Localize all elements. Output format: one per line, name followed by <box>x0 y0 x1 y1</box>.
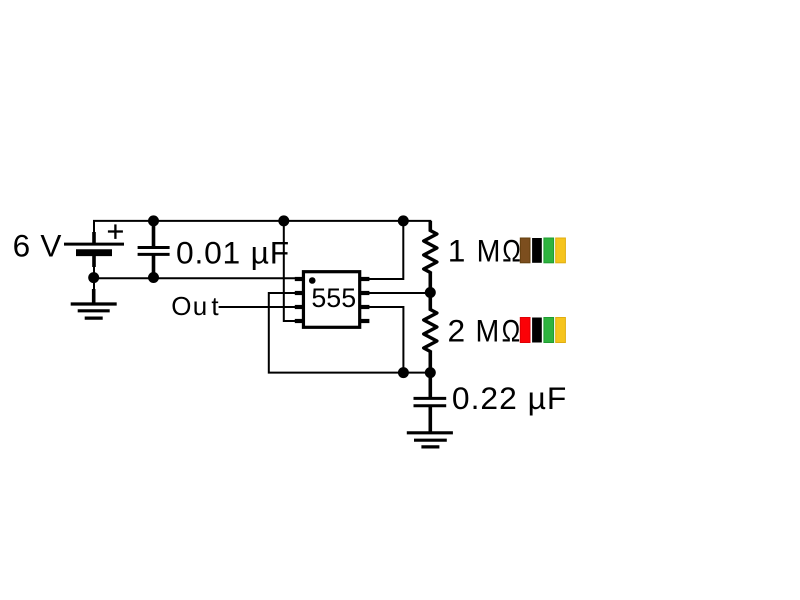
svg-text:M: M <box>477 234 501 269</box>
svg-text:Ω: Ω <box>502 314 521 350</box>
svg-text:M: M <box>476 314 500 349</box>
svg-text:Ω: Ω <box>502 233 521 269</box>
svg-text:Out: Out <box>171 291 219 321</box>
svg-text:2: 2 <box>448 313 466 349</box>
svg-text:0.01 µF: 0.01 µF <box>176 234 290 270</box>
svg-text:1: 1 <box>448 232 466 268</box>
svg-text:555: 555 <box>311 283 356 313</box>
svg-text:0.22 µF: 0.22 µF <box>452 380 567 416</box>
